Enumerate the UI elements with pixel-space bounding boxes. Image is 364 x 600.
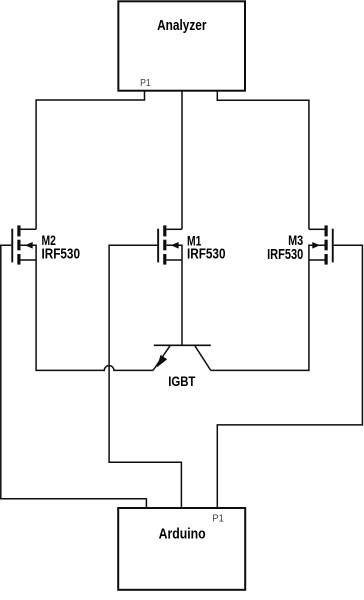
svg-text:Arduino: Arduino <box>159 525 206 542</box>
svg-text:IRF530: IRF530 <box>187 246 226 262</box>
svg-text:P1: P1 <box>140 78 151 89</box>
svg-text:IRF530: IRF530 <box>267 247 303 263</box>
svg-text:M3: M3 <box>288 233 303 248</box>
svg-text:IGBT: IGBT <box>168 374 195 390</box>
svg-text:Analyzer: Analyzer <box>157 18 207 34</box>
svg-text:IRF530: IRF530 <box>42 247 81 263</box>
svg-text:P1: P1 <box>212 513 224 524</box>
